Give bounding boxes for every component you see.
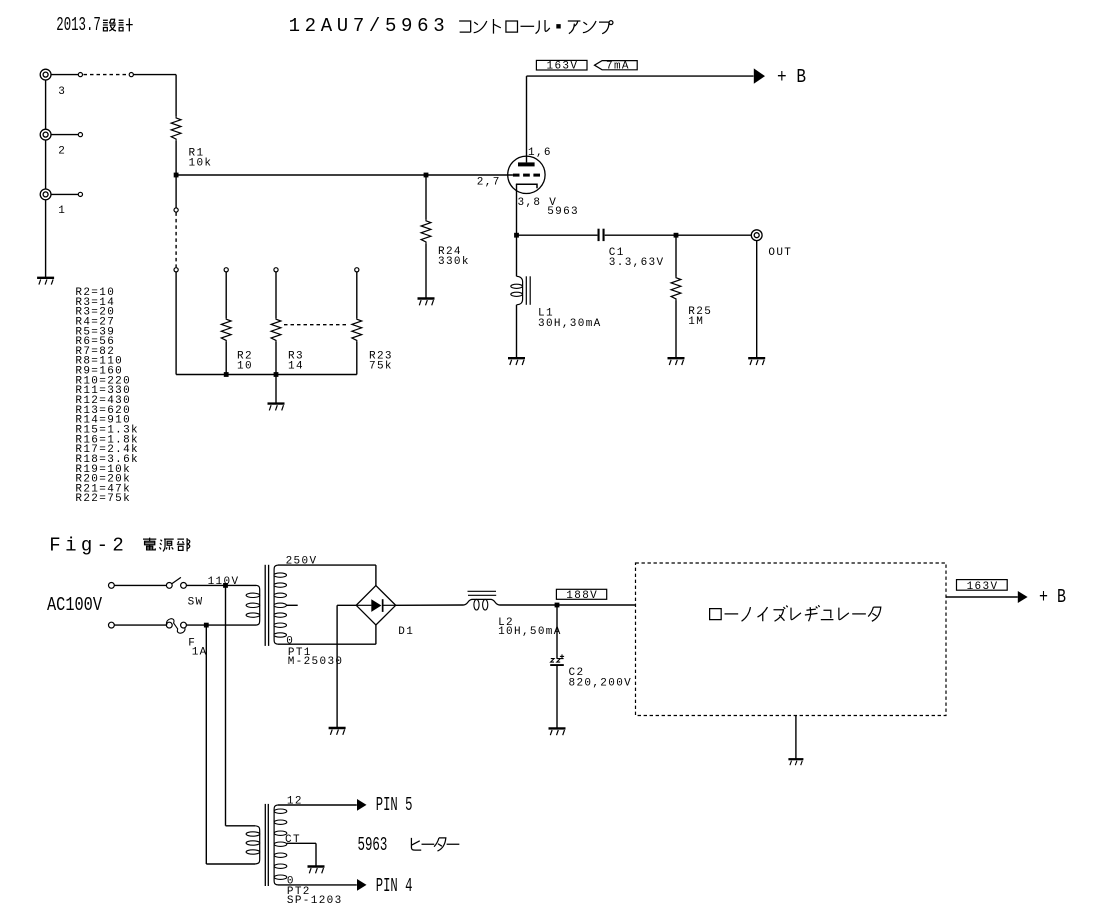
svg-text:3.3,63V: 3.3,63V: [609, 257, 665, 269]
svg-text:0: 0: [286, 635, 294, 647]
svg-text:330k: 330k: [438, 256, 470, 268]
svg-text:SW: SW: [188, 596, 204, 608]
svg-text:10H,50mA: 10H,50mA: [498, 626, 562, 638]
svg-text:188V: 188V: [566, 590, 598, 602]
svg-text:R22=75k: R22=75k: [75, 493, 131, 505]
svg-text:PIN 5: PIN 5: [376, 794, 413, 816]
svg-text:2013.7: 2013.7: [56, 14, 101, 36]
svg-text:30H,30mA: 30H,30mA: [538, 318, 602, 330]
svg-text:7mA: 7mA: [606, 61, 630, 73]
svg-text:OUT: OUT: [768, 247, 792, 259]
svg-text:250V: 250V: [286, 556, 318, 568]
svg-text:1: 1: [58, 205, 66, 217]
svg-text:1M: 1M: [688, 316, 704, 328]
svg-text:SP-1203: SP-1203: [287, 895, 343, 907]
svg-text:75k: 75k: [369, 361, 393, 373]
svg-text:3: 3: [58, 86, 66, 98]
svg-text:+ B: + B: [1039, 586, 1066, 608]
svg-text:5963: 5963: [547, 206, 579, 218]
svg-text:163V: 163V: [967, 581, 999, 593]
svg-text:10k: 10k: [189, 158, 213, 170]
svg-text:AC100V: AC100V: [47, 594, 102, 616]
svg-text:D1: D1: [398, 626, 414, 638]
svg-text:10: 10: [237, 361, 253, 373]
svg-text:2,7: 2,7: [477, 177, 501, 189]
svg-text:163V: 163V: [547, 61, 579, 73]
svg-text:2: 2: [58, 146, 66, 158]
svg-text:M-25030: M-25030: [288, 656, 344, 668]
svg-text:PIN 4: PIN 4: [376, 875, 413, 897]
svg-text:Fig-2: Fig-2: [49, 534, 124, 556]
svg-text:1,6: 1,6: [528, 147, 552, 159]
svg-text:+ B: + B: [777, 66, 806, 88]
svg-text:110V: 110V: [208, 576, 240, 588]
svg-text:820,200V: 820,200V: [569, 677, 633, 689]
svg-text:CT: CT: [285, 834, 301, 846]
svg-text:1A: 1A: [192, 647, 208, 659]
svg-text:5963: 5963: [358, 834, 388, 856]
svg-text:14: 14: [288, 361, 304, 373]
svg-text:12: 12: [287, 796, 303, 808]
